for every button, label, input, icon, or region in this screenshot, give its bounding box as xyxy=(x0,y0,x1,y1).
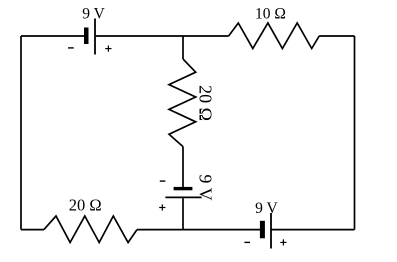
resistor R1 10 ohm top-right zigzag xyxy=(229,23,320,49)
battery B1 positive plate (long thin) xyxy=(94,19,96,55)
wire left side vertical xyxy=(20,36,22,230)
node A junction top middle xyxy=(182,36,184,59)
svg-text:20 Ω: 20 Ω xyxy=(196,85,216,121)
label plus for battery B2 xyxy=(159,204,165,210)
wire top-left horizontal xyxy=(21,35,84,37)
wire middle (battery B2 + to node B) xyxy=(182,198,184,229)
battery B1 negative plate (short thick) xyxy=(84,28,89,45)
svg-text:9 V: 9 V xyxy=(255,200,278,217)
wire bottom middle (node B to battery) xyxy=(137,229,260,231)
label minus for battery B2 xyxy=(160,180,166,182)
svg-text:10 Ω: 10 Ω xyxy=(255,5,286,22)
battery B3 negative plate (short thick) xyxy=(260,221,265,239)
svg-text:9 V: 9 V xyxy=(196,174,216,200)
battery B2 positive plate (long thin) xyxy=(165,196,201,198)
wire bottom-right horizontal xyxy=(271,229,355,231)
wire top middle (battery + to node A) xyxy=(96,35,229,37)
wire right side vertical xyxy=(354,36,356,230)
label plus for battery B1 xyxy=(105,46,111,52)
wire bottom-left horizontal xyxy=(21,229,44,231)
battery B1 9V top-left xyxy=(84,19,95,55)
svg-text:20 Ω: 20 Ω xyxy=(69,196,102,215)
wire middle (resistor R2 to battery B2) xyxy=(182,147,184,187)
svg-text:9 V: 9 V xyxy=(82,5,105,22)
battery B3 positive plate (long thin) xyxy=(270,213,272,249)
battery B2 9V middle xyxy=(165,187,201,198)
label plus for battery B3 xyxy=(280,239,286,245)
resistor R3 20 ohm bottom-left zigzag xyxy=(44,216,137,243)
label minus for battery B1 xyxy=(68,47,74,49)
wire top-right (resistor to corner) xyxy=(319,35,354,37)
label minus for battery B3 xyxy=(244,241,250,243)
resistor R2 20 ohm middle vertical zigzag xyxy=(169,59,196,147)
battery B3 9V bottom-right xyxy=(260,213,271,249)
battery B2 negative plate (short thick) xyxy=(174,187,193,190)
